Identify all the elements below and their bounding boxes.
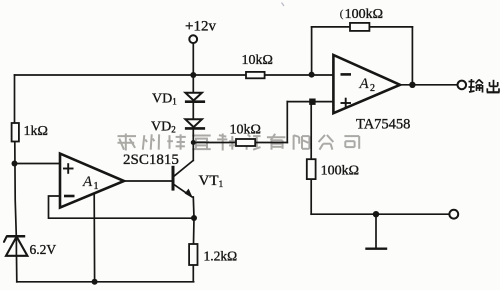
svg-text:+12v: +12v	[185, 19, 216, 35]
svg-text:(: (	[340, 8, 344, 20]
svg-text:2SC1815: 2SC1815	[123, 152, 179, 168]
svg-text:1kΩ: 1kΩ	[24, 124, 48, 139]
svg-text:1: 1	[94, 181, 99, 192]
svg-text:100kΩ: 100kΩ	[345, 7, 383, 22]
svg-text:A: A	[82, 174, 93, 190]
svg-text:10kΩ: 10kΩ	[230, 123, 261, 138]
svg-text:6.2V: 6.2V	[30, 242, 57, 257]
svg-text:A: A	[359, 76, 370, 92]
svg-text:TA75458: TA75458	[356, 117, 410, 133]
svg-text:10kΩ: 10kΩ	[242, 53, 273, 68]
svg-text:100kΩ: 100kΩ	[321, 164, 359, 179]
svg-text:2: 2	[370, 83, 375, 94]
svg-text:1.2kΩ: 1.2kΩ	[204, 249, 238, 264]
